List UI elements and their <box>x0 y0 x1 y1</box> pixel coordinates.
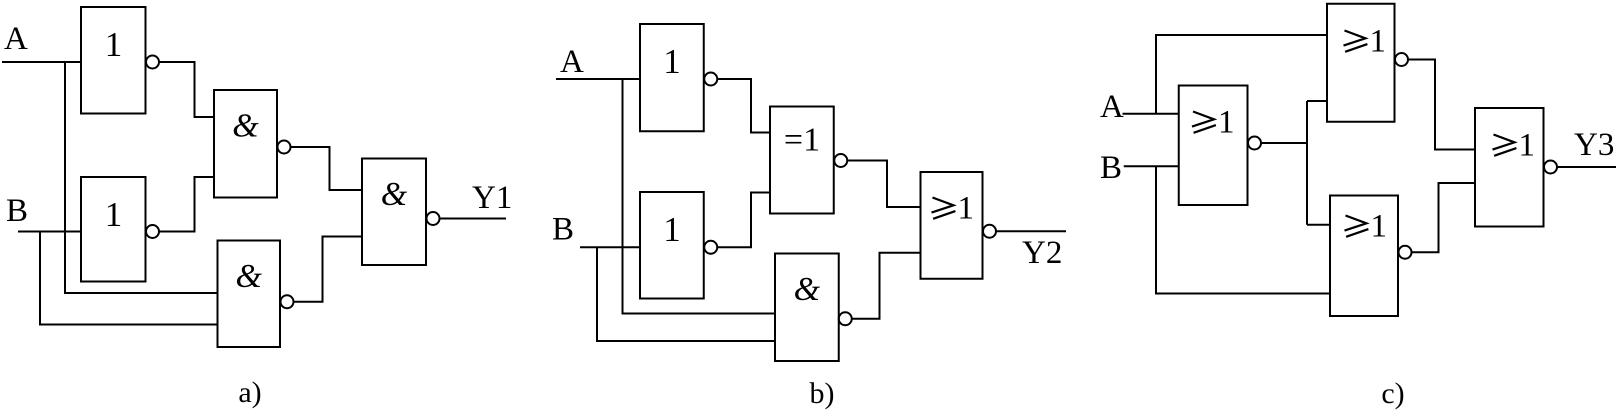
K3 output bubble <box>1399 246 1412 259</box>
H5 output bubble <box>983 225 996 238</box>
K4 output bubble <box>1544 161 1557 174</box>
wire junction to K3 <box>1307 224 1330 226</box>
svg-text:Y2: Y2 <box>1022 235 1062 271</box>
H1 output bubble <box>704 73 717 86</box>
K1 label geq1 <box>1192 105 1235 141</box>
wire G1 to G3 <box>159 62 214 117</box>
wire B input <box>580 246 640 248</box>
K4 label geq1 <box>1493 128 1536 164</box>
NOR K3 <box>1330 196 1398 317</box>
node: B branch to H4 <box>597 247 775 341</box>
NAND G5 <box>362 159 426 266</box>
wire K1 to junction <box>1261 142 1307 144</box>
inverter G2 <box>81 177 146 282</box>
inverter H1 <box>640 24 704 131</box>
H5 label geq1 <box>932 191 975 227</box>
svg-text:A: A <box>4 21 28 57</box>
svg-text:1: 1 <box>663 210 681 249</box>
G2 output bubble <box>146 225 159 238</box>
output wire Y1 <box>440 218 507 220</box>
node: A branch to G4 <box>65 62 218 293</box>
svg-text:c): c) <box>1381 377 1404 410</box>
NAND G4 <box>218 241 281 348</box>
wire G4 to G5 <box>294 237 363 302</box>
junction vertical <box>1306 101 1308 225</box>
svg-text:A: A <box>560 44 584 80</box>
svg-text:B: B <box>6 193 28 229</box>
svg-text:A: A <box>1100 89 1124 125</box>
node: B branch to K3 <box>1156 166 1330 293</box>
inverter G1 <box>81 7 146 114</box>
wire H3 to H5 <box>847 161 920 208</box>
wire K2 to K4 <box>1408 60 1475 150</box>
svg-text:&: & <box>236 258 263 295</box>
wire K3 to K4 <box>1412 183 1476 252</box>
node: B branch to G4 <box>40 232 218 325</box>
H2 output bubble <box>704 241 717 254</box>
K2 output bubble <box>1395 53 1408 66</box>
output wire Y3 <box>1557 166 1616 168</box>
wire G2 to G3 <box>159 177 214 232</box>
output wire Y2 <box>996 230 1066 232</box>
H3 output bubble <box>834 154 847 167</box>
wire H1 to H3 <box>717 79 770 133</box>
svg-text:&: & <box>381 176 408 213</box>
svg-text:1: 1 <box>105 25 123 64</box>
K1 output bubble <box>1248 137 1261 150</box>
XNOR H3 <box>770 107 834 214</box>
wire B input <box>1124 165 1179 167</box>
svg-text:b): b) <box>810 377 835 410</box>
K3 label geq1 <box>1345 209 1388 245</box>
node: A branch to K2 <box>1156 35 1327 114</box>
wire A input <box>556 78 640 80</box>
wire junction to K2 <box>1307 100 1327 102</box>
svg-text:a): a) <box>238 376 261 409</box>
NOR H5 <box>921 172 983 279</box>
H4 output bubble <box>839 312 852 325</box>
svg-text:=1: =1 <box>784 122 820 159</box>
G5 output bubble <box>427 212 440 225</box>
svg-text:1: 1 <box>663 42 681 81</box>
svg-text:&: & <box>794 271 821 308</box>
G4 output bubble <box>281 295 294 308</box>
NAND G3 <box>214 90 277 198</box>
G1 output bubble <box>146 56 159 69</box>
node: A branch to H4 <box>623 79 776 314</box>
svg-text:B: B <box>552 212 574 248</box>
wire H2 to H3 <box>717 193 770 248</box>
svg-text:Y3: Y3 <box>1574 127 1614 163</box>
K2 label geq1 <box>1344 24 1387 60</box>
wire H4 to H5 <box>852 253 921 319</box>
svg-text:Y1: Y1 <box>472 180 512 216</box>
svg-text:1: 1 <box>105 195 123 234</box>
NOR K1 <box>1179 86 1248 206</box>
wire A input <box>1123 113 1179 115</box>
svg-text:&: & <box>232 108 259 145</box>
NAND H4 <box>775 254 839 362</box>
NOR K4 <box>1475 108 1544 227</box>
svg-text:B: B <box>1100 150 1122 186</box>
inverter H2 <box>640 192 704 299</box>
G3 output bubble <box>278 141 291 154</box>
wire G3 to G5 <box>291 147 363 190</box>
wire B input <box>18 231 81 233</box>
NOR K2 <box>1327 4 1395 122</box>
wire A input <box>2 61 81 63</box>
